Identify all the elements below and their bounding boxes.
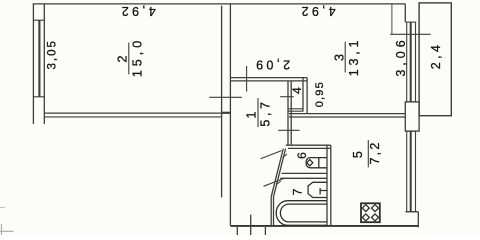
toilet flush diamond (307, 160, 313, 166)
wall step right top (406, 211, 418, 213)
door bath leaf (264, 178, 285, 186)
svg-text:2,09: 2,09 (253, 57, 290, 71)
window W2 pane line (38, 20, 40, 97)
wall middle right line (229, 4, 231, 226)
wall wc-bath right outer (330, 145, 332, 225)
wall closet right line b (306, 78, 308, 114)
dimension line 3.06 extension (391, 4, 393, 34)
wall bath left line b (273, 197, 275, 226)
wall kitchen top lower (289, 116, 405, 118)
svg-text:4: 4 (290, 87, 304, 94)
wall right top segment (404, 4, 406, 22)
window W2 sill bottom (33, 96, 44, 98)
svg-text:3: 3 (333, 54, 347, 61)
window W5 pane line (410, 131, 412, 212)
wall wc-bath divider lower (280, 177, 327, 179)
door kitchen leaf (278, 129, 299, 131)
wall kitchen top upper (289, 113, 405, 115)
wall wc-bath right inner (326, 145, 328, 225)
dimension tick right side (390, 33, 430, 35)
window W3 bottom cap (405, 101, 416, 103)
wall junction mid bottom connector (222, 112, 231, 114)
window W3 top cap (405, 21, 416, 23)
bathtub outer (276, 201, 327, 226)
stove burner tr (372, 205, 379, 212)
svg-text:7,2: 7,2 (368, 141, 382, 165)
entrance tick right (264, 227, 266, 235)
wall room2 bottom upper line (44, 112, 221, 114)
svg-text:6: 6 (295, 152, 309, 159)
corner artifact bottom left vertical (1, 224, 3, 235)
window W5 top cap (405, 130, 416, 132)
svg-text:5: 5 (351, 151, 365, 158)
wire top outer wall (33, 3, 406, 5)
svg-text:3,06: 3,06 (394, 36, 408, 76)
wall wc top lower (288, 147, 331, 149)
window W5 bottom cap (405, 211, 416, 213)
window W3 outer line (406, 22, 408, 102)
wall step right side (417, 212, 419, 228)
svg-text:4,92: 4,92 (299, 4, 336, 18)
wall slanted line b (271, 149, 283, 197)
svg-text:4,92: 4,92 (119, 4, 156, 18)
wall bottom outer (230, 225, 418, 227)
label room3 bar (344, 42, 346, 73)
svg-text:13,1: 13,1 (347, 37, 361, 77)
door wc jamb (283, 154, 288, 158)
window W5 outer line (406, 131, 408, 212)
window W3 inner line (415, 22, 417, 102)
svg-text:3,05: 3,05 (47, 39, 59, 69)
door bath jamb (277, 181, 281, 185)
wall hall right line b (290, 81, 292, 145)
label kitchen bar (367, 140, 369, 167)
edge artifact left (0, 207, 5, 209)
wall closet right line a (302, 78, 304, 112)
stove burner br (372, 214, 379, 221)
wall left inner line (43, 4, 45, 124)
wall left outer line (32, 4, 34, 124)
door room2 leaf (209, 96, 242, 98)
wall closet bottom upper (288, 108, 303, 110)
toilet bowl (306, 158, 327, 168)
wall hall right line a (287, 81, 289, 145)
svg-text:15,0: 15,0 (130, 37, 144, 77)
toilet cistern (318, 158, 320, 168)
wall middle left line (221, 6, 223, 198)
wall wc-bath divider upper (282, 172, 328, 174)
wall bath left line a (270, 197, 272, 226)
pier rect right wall (405, 102, 419, 131)
window W5 inner line (415, 131, 417, 212)
door room3 leaf (246, 66, 248, 92)
svg-text:2: 2 (116, 55, 130, 62)
door wc leaf (261, 151, 282, 159)
label room2 bar (128, 43, 130, 75)
wall hall top lower line (230, 80, 307, 82)
wall wc top upper (286, 144, 331, 146)
door closet leaf (280, 96, 294, 98)
entrance door leaf (250, 215, 252, 235)
window W2 sill top (33, 19, 44, 21)
svg-text:2,4: 2,4 (429, 42, 443, 70)
washbasin (308, 182, 327, 197)
stove burner tl (362, 205, 369, 212)
svg-text:0,95: 0,95 (314, 81, 326, 107)
wall room2 bottom lower line (44, 116, 221, 118)
svg-text:5,7: 5,7 (259, 98, 273, 126)
stove burner bl (362, 214, 369, 221)
washbasin tap (320, 188, 327, 195)
wall slanted line a (274, 149, 286, 197)
window W3 pane line (410, 22, 412, 102)
svg-text:7: 7 (291, 188, 305, 195)
entrance tick left (236, 227, 238, 235)
corner artifact bottom left horizontal (0, 230, 14, 232)
stove outline (361, 203, 380, 222)
balcony outline (419, 3, 451, 116)
svg-text:1: 1 (245, 111, 259, 118)
wall closet bottom lower (288, 110, 303, 112)
wall hall top upper line (230, 77, 307, 79)
bathtub inner (280, 204, 327, 222)
label hall bar (257, 98, 259, 127)
